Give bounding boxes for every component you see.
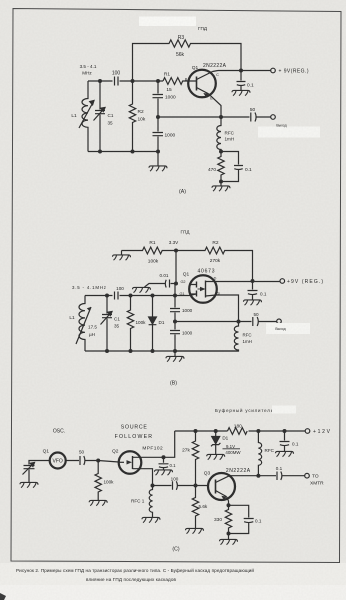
- node emitter junction: [227, 503, 231, 507]
- capacitor C1 35 variable: [95, 81, 105, 152]
- white patch (erased label) top: [139, 17, 196, 27]
- collector line: [230, 475, 305, 477]
- diode D1: [149, 296, 157, 352]
- capacitor 1000 lower ladder: [153, 117, 164, 152]
- +12V rail: [175, 430, 306, 432]
- inductor RFC 1 source: [149, 486, 152, 518]
- capacitor 100 coupling: [115, 77, 119, 86]
- capacitor 0.1 output coupling: [277, 472, 282, 481]
- ground: [20, 482, 38, 487]
- node junction: [219, 150, 223, 154]
- ground: [244, 300, 262, 305]
- resistor R1 100k: [122, 247, 177, 254]
- resistor 100k: [127, 296, 133, 352]
- resistor R2 270k: [176, 247, 253, 281]
- node: junction dots base line: [98, 79, 160, 83]
- ground: [89, 500, 107, 505]
- resistor 180 series: [228, 428, 248, 435]
- ground: [276, 451, 294, 456]
- node: junction dot: [239, 69, 243, 73]
- capacitor 0.1 rail bypass: [280, 431, 290, 452]
- wire drain to +9V rail: [206, 281, 281, 283]
- inductor RFC 1mH: [217, 117, 221, 152]
- capacitor 100 series: [115, 292, 119, 300]
- resistor 27k: [192, 431, 198, 486]
- ground: [186, 528, 204, 533]
- terminal +9V: [280, 279, 285, 284]
- resistor R3 56k feedback: [133, 40, 242, 81]
- capacitor 1000 upper ladder: [153, 81, 164, 117]
- inductor L1 variable: [82, 81, 88, 152]
- capacitor 50 output: [251, 113, 256, 122]
- capacitor 0.01 G2 bypass: [145, 280, 177, 288]
- dark mark bottom-left corner: [0, 593, 6, 600]
- ground: [228, 534, 230, 540]
- node base junction: [194, 484, 198, 488]
- terminal output: [277, 319, 282, 324]
- output line: [175, 321, 277, 323]
- terminal +12V: [305, 429, 310, 434]
- main tank line to G1: [85, 294, 196, 296]
- node junction: [227, 532, 231, 536]
- capacitor 0.1 bypass: [237, 71, 246, 91]
- terminal +9V: [271, 68, 276, 73]
- wire: main base line: [88, 80, 163, 82]
- capacitor 100 base coupling: [153, 481, 209, 490]
- ground: [142, 517, 160, 522]
- white patch under output: [266, 323, 310, 334]
- ground: [232, 90, 250, 95]
- capacitor 0.1 drain bypass: [159, 457, 169, 470]
- wire: emitter output line: [158, 116, 271, 118]
- resistor 330 emitter: [225, 505, 231, 533]
- inductor RFC collector: [258, 431, 261, 476]
- zener diode D1 9.1V: [211, 431, 220, 455]
- ground bottom rail: [174, 351, 176, 357]
- wire bottom rail: [85, 350, 239, 352]
- terminal TO XMTR: [305, 473, 310, 478]
- node dots main line: [105, 294, 177, 298]
- resistor 100k gate: [95, 461, 101, 501]
- node drain junction: [162, 455, 166, 459]
- white patch: [272, 406, 296, 414]
- capacitor 50 coupling: [66, 456, 99, 465]
- wire gate: [98, 461, 119, 463]
- resistor 5.6k base: [192, 486, 198, 529]
- node junction: [96, 459, 100, 463]
- wire G2 bias vertical: [175, 251, 177, 284]
- ground: [155, 470, 173, 475]
- ladder vertical with 1000 caps: [170, 284, 180, 352]
- node junction: [219, 180, 223, 184]
- wire: +9V collector rail: [218, 70, 271, 72]
- white patch under output: [258, 127, 320, 138]
- node 3.3V junction: [174, 249, 178, 253]
- terminal output: [271, 115, 276, 120]
- ground at left of R1: [121, 251, 123, 256]
- inductor RFC 1mH: [175, 322, 239, 352]
- capacitor 0.1 bypass: [248, 281, 258, 300]
- capacitor 0.1 emitter: [221, 152, 243, 182]
- transistor Q1 2N2222A: [188, 70, 216, 98]
- capacitor 50 output: [253, 317, 259, 326]
- wire bottom rail: [88, 151, 158, 153]
- resistor 470 emitter: [218, 152, 224, 182]
- MOSFET Q1 40673: [189, 275, 217, 303]
- node source junction: [151, 484, 155, 488]
- ground for 0.01: [133, 287, 151, 292]
- capacitor 0.1 emitter: [229, 505, 254, 533]
- ground: [220, 182, 222, 187]
- ground bottom rail: [157, 152, 159, 167]
- inductor L1 17.5uH variable: [79, 296, 85, 352]
- wire source down: [206, 295, 239, 322]
- resistor R1 15: [163, 78, 197, 85]
- ground: [207, 454, 225, 459]
- capacitor C1 35 variable: [102, 296, 112, 352]
- resistor R2 10k: [129, 81, 135, 152]
- trimmer capacitor left: [24, 461, 50, 483]
